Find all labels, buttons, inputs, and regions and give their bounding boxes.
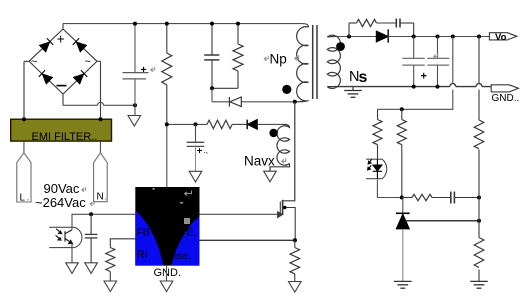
junctions on Vo rail [412, 35, 416, 39]
wire: opto emitter to ground [71, 244, 73, 263]
svg-text:GND..: GND.. [492, 93, 520, 104]
junction: clamp RC bottom node [210, 86, 214, 90]
junctions on Vcc rail [165, 122, 169, 126]
MOSFET Q1 [278, 102, 296, 241]
capacitor C5 (output) [427, 37, 449, 87]
capacitor C1 (bulk input cap) [123, 24, 149, 106]
wire: secondary ground rail [334, 84, 491, 87]
wire: main DC bus rail [63, 24, 309, 27]
diode D5 (clamp, open) [229, 97, 294, 107]
svg-text:FB: FB [137, 227, 150, 239]
junction: feedback feed node [400, 107, 404, 111]
aux phase dot [269, 129, 277, 137]
svg-text:GND.: GND. [154, 267, 182, 279]
svg-text:90Vac: 90Vac [44, 181, 80, 196]
comp resistor R6 [402, 194, 450, 200]
secondary phase dot [336, 42, 345, 51]
junctions: EMI filter terminals [22, 117, 26, 121]
svg-text:~264Vac: ~264Vac [35, 195, 86, 210]
bridge polarity labels [31, 31, 91, 85]
node: primary bottom / drain [293, 100, 297, 104]
resistor R4 (opto LED series) [373, 109, 382, 159]
junction: snubber tap on secondary output [347, 35, 351, 39]
port N [94, 153, 108, 202]
junction: clamp cap on DC bus [210, 22, 214, 26]
svg-text:RI: RI [137, 249, 148, 261]
capacitor C7 (Vcc) [187, 124, 205, 171]
port GND [491, 85, 518, 92]
svg-text:s: s [359, 69, 368, 86]
port L [17, 153, 31, 202]
svg-text:N: N [97, 192, 104, 203]
EMI filter block [11, 119, 112, 143]
clamp snubber: resistor R2 [212, 24, 243, 89]
clamp snubber: capacitor C2 [204, 24, 219, 89]
wire: feedback feed from Vo [378, 37, 453, 110]
svg-text:L: L [20, 193, 26, 204]
svg-text:+: + [57, 31, 65, 46]
transformer secondary winding Ns [327, 35, 340, 88]
wire: current sense [200, 239, 296, 241]
svg-text:Np: Np [270, 52, 287, 67]
divider resistor R8 (lower) [474, 238, 484, 282]
capacitor C4 (output electrolytic) [402, 37, 425, 87]
ground (aux) [264, 171, 277, 182]
svg-text:Navx: Navx [244, 154, 275, 169]
primary phase dot [282, 85, 291, 94]
shunt regulator U3 (TL431) [396, 198, 410, 282]
wire: EMI to L [23, 141, 25, 153]
sec snubber capacitor C3 [396, 19, 413, 37]
node: bulk negative junction [133, 103, 137, 107]
diode D-TL of bridge [39, 38, 53, 52]
comp capacitor C6 [451, 192, 479, 204]
svg-text:~: ~ [31, 56, 37, 68]
wire: gate drive [200, 213, 278, 215]
transformer T1 primary winding Np [295, 27, 309, 102]
wire: opto collector to FB [72, 214, 135, 230]
junctions on secondary ground rail [412, 85, 416, 89]
svg-text:+: + [197, 146, 203, 157]
wire: snubber to clamp diode [211, 88, 213, 102]
diode D-TR of bridge [73, 38, 87, 52]
svg-text:+: + [141, 64, 147, 76]
svg-text:+: + [421, 71, 427, 83]
svg-text:EMI FILTER..: EMI FILTER.. [32, 131, 98, 143]
node: TL431 cathode node [400, 196, 404, 200]
diode D-BR of bridge [73, 70, 87, 84]
wire: LED cathode to node [377, 180, 401, 198]
junction: FB filter cap tap [89, 212, 93, 216]
svg-text:~: ~ [85, 56, 91, 68]
transformer core [313, 25, 317, 99]
wire: Vcc rail [167, 124, 207, 187]
svg-text:ense.: ense. [166, 250, 192, 262]
controller IC U1 (logo body) [135, 187, 199, 266]
resistor R5 (bias) [397, 109, 406, 197]
divider resistor R7 (upper) [474, 37, 484, 238]
diode D7 (Vcc, points left) [247, 120, 283, 130]
wire: EMI to N [99, 141, 101, 153]
resistor R11 (sense) [290, 240, 300, 281]
port Vo [489, 33, 516, 40]
svg-text:TE.: TE. [180, 227, 196, 239]
resistor R9 (Vcc series) [207, 120, 247, 128]
junction: source / sense node [293, 238, 297, 242]
svg-text:.,: ., [204, 146, 208, 155]
junction: bulk cap top on DC bus [133, 22, 137, 26]
bridge rectifier BR1 [24, 24, 101, 120]
junction: ref wire to divider [477, 219, 481, 223]
optocoupler U2 LED side [366, 159, 387, 179]
ground (secondary) [352, 87, 354, 91]
wire: bridge negative return [63, 102, 135, 105]
junction: startup resistor on DC bus [165, 22, 169, 26]
junction: comp network to divider [477, 196, 481, 200]
wire: secondary output rail [334, 36, 376, 38]
svg-text:Vo: Vo [495, 32, 507, 43]
wire: TL431 ref to divider [406, 220, 479, 222]
ground (primary return) [134, 105, 136, 115]
diode D-BL of bridge [39, 70, 53, 84]
transformer T1 aux winding Navx [270, 124, 290, 171]
sec snubber resistor R3 [349, 19, 396, 36]
resistor R1 (startup) [162, 24, 172, 125]
resistor R10 (RI set) [106, 239, 136, 281]
capacitor C8 (FB filter) [85, 214, 98, 262]
junction: clamp resistor on DC bus [236, 22, 240, 26]
optocoupler U2 transistor side [49, 227, 82, 247]
diode D6 (output rectifier) [376, 29, 489, 42]
ground (IC) [166, 266, 168, 281]
